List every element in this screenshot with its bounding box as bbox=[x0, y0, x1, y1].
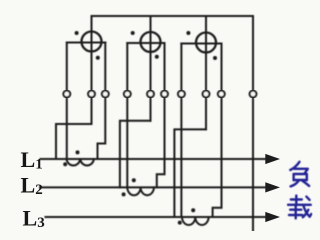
terminal 4 bbox=[124, 91, 131, 98]
terminal 6 bbox=[161, 91, 168, 98]
wire: current-coil horizontal through meter element 2 bbox=[127, 42, 164, 44]
wire: voltage tap A from terminal 2 to line L1 bbox=[56, 124, 92, 159]
wire: voltage tap C from terminal 8 to line L3 bbox=[174, 129, 206, 217]
wire: phase line L2 bbox=[40, 186, 266, 188]
terminal 2 bbox=[88, 91, 95, 98]
polarity dot meter element 1 lower bbox=[96, 56, 100, 60]
load label character FU (负) bbox=[290, 162, 309, 187]
wire: terminal 9 vertical with jog to CT3 secondary right end bbox=[213, 44, 222, 218]
polarity dot CT2 primary bbox=[132, 178, 136, 182]
arrowhead load side L1 bbox=[265, 154, 280, 164]
wire: current-coil horizontal through meter element 1 bbox=[67, 42, 106, 44]
polarity dot CT1 secondary bbox=[63, 162, 67, 166]
polarity dot meter element 3 lower bbox=[213, 56, 217, 60]
wire: vertical through meter element 1 (bus to terminal 2 to tap A) bbox=[91, 16, 93, 124]
wire: phase line L1 bbox=[41, 158, 267, 160]
polarity dot meter element 1 bbox=[75, 31, 79, 35]
wire: terminal 7 vertical down to CT3 secondary left end bbox=[180, 44, 182, 218]
polarity dot meter element 3 bbox=[186, 31, 190, 35]
polarity dot CT1 primary bbox=[76, 150, 80, 154]
wire: phase line L3 bbox=[46, 216, 267, 218]
terminal 8 bbox=[203, 91, 210, 98]
transformer CT3 secondary winding on line L3 bbox=[182, 217, 209, 225]
terminal 3 bbox=[102, 91, 109, 98]
wire: vertical through meter element 3 (bus to terminal 8 to tap C) bbox=[205, 16, 207, 129]
wire: terminal 4 vertical down to CT2 secondary left end bbox=[126, 43, 128, 187]
meter element 1 circle bbox=[82, 32, 102, 52]
wire: terminal 6 vertical with jog to CT2 secondary right end bbox=[157, 43, 165, 187]
polarity dot CT3 primary bbox=[191, 208, 195, 212]
polarity dot CT2 secondary bbox=[122, 192, 126, 196]
wire: voltage tap B from terminal 5 to line L2 bbox=[120, 121, 151, 188]
wire: top voltage bus bbox=[92, 15, 254, 17]
meter element 2 circle bbox=[141, 32, 161, 52]
transformer CT1 secondary winding on line L1 bbox=[67, 159, 94, 166]
polarity dot CT3 secondary bbox=[178, 221, 182, 225]
polarity dot meter element 2 lower bbox=[155, 55, 159, 59]
wire: current-coil horizontal through meter element 3 bbox=[181, 43, 221, 45]
terminal 5 bbox=[147, 91, 154, 98]
terminal 10 neutral bbox=[250, 91, 257, 98]
wire: vertical through meter element 2 (bus to terminal 5 to tap B) bbox=[150, 16, 152, 121]
arrowhead load side L2 bbox=[265, 182, 280, 192]
wire: neutral drop from bus to terminal 10 and down to load side bbox=[252, 16, 254, 231]
terminal 9 bbox=[218, 91, 225, 98]
load label character ZAI (载) bbox=[288, 196, 311, 219]
terminal 7 bbox=[178, 91, 185, 98]
polarity dot meter element 2 bbox=[131, 31, 135, 35]
terminal 1 bbox=[63, 91, 70, 98]
wire: terminal 1 vertical down to CT1 secondary left end bbox=[66, 43, 68, 160]
transformer CT2 secondary winding on line L2 bbox=[127, 187, 154, 195]
meter element 3 circle bbox=[196, 33, 216, 53]
wire: terminal 3 vertical with jog to CT1 secondary right end bbox=[98, 43, 106, 160]
arrowhead load side L3 bbox=[265, 212, 280, 222]
